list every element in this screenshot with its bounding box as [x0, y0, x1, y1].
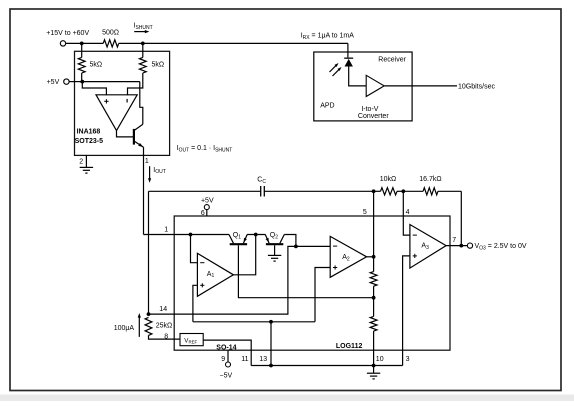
wire A2 out	[367, 256, 374, 258]
arrow IOUT	[149, 166, 151, 179]
bottom gray bar	[0, 395, 574, 402]
wire iout vertical	[143, 147, 145, 234]
node dot A1 minus	[189, 233, 193, 237]
svg-text:5: 5	[363, 209, 367, 216]
op-amp A3 triangle	[410, 225, 446, 269]
capacitor Cc plates	[260, 186, 262, 197]
svg-text:5kΩ: 5kΩ	[90, 62, 103, 69]
wire A1 out	[233, 235, 255, 275]
node dot Q1Q2 emitters	[254, 233, 258, 237]
transistor Q1 base bar	[230, 243, 247, 245]
node dot pin4 top	[401, 189, 405, 193]
node +5V junction dot	[80, 80, 84, 84]
resistor 25k	[145, 317, 152, 335]
resistor 5k-2	[139, 57, 146, 73]
node dot divider mid	[372, 296, 376, 300]
wire pin14 feedback	[149, 246, 296, 314]
transistor Q1 collector	[229, 235, 233, 244]
wire Q2 base stem	[274, 245, 276, 255]
wire opamp out to Q base	[117, 131, 134, 137]
svg-text:1: 1	[145, 158, 149, 165]
wire Cc to 10k dot	[264, 190, 373, 192]
wire vref out	[203, 340, 251, 365]
wire A2 minus	[296, 245, 330, 247]
svg-text:13: 13	[259, 356, 267, 363]
svg-text:+15V to +60V: +15V to +60V	[46, 30, 89, 37]
node dot A2 minus	[294, 245, 298, 249]
resistor 5k-1	[78, 57, 85, 73]
wire A1 plus down	[193, 285, 198, 322]
svg-text:APD: APD	[320, 103, 334, 110]
wire A2out to R1	[373, 257, 375, 272]
svg-text:7: 7	[452, 237, 456, 244]
op-amp U1 plus mark	[104, 100, 108, 102]
wire junction A to 5k1 top	[81, 43, 83, 57]
ground Q2	[268, 254, 281, 256]
resistor 5k-2 top stub	[142, 43, 144, 57]
op-amp A3 plus mark	[413, 255, 417, 257]
terminal +5V	[64, 79, 69, 84]
node dot pin5 top	[372, 189, 376, 193]
svg-text:100μA: 100μA	[114, 325, 135, 332]
op-amp itov triangle	[366, 75, 384, 96]
svg-text:16.7kΩ: 16.7kΩ	[419, 176, 441, 183]
wire pin1 horizontal	[144, 234, 191, 236]
transistor Q2 base bar	[266, 243, 283, 245]
resistor R1 divider	[370, 272, 377, 287]
wire 16.7k down to out	[460, 191, 462, 245]
transistor Q2 collector	[280, 235, 284, 244]
op-amp A2 plus mark	[333, 267, 337, 269]
op-amp A1 plus mark	[200, 284, 204, 286]
svg-text:Receiver: Receiver	[378, 57, 406, 64]
node dot pin13 top	[269, 320, 273, 324]
receiver box	[314, 52, 412, 121]
photodiode D1 cathode bar	[344, 57, 353, 59]
svg-text:SOT23-5: SOT23-5	[75, 138, 104, 145]
wire 10k to dot	[374, 190, 381, 192]
wire pin6 stem	[206, 210, 208, 216]
svg-text:2: 2	[79, 159, 83, 166]
svg-text:14: 14	[159, 306, 167, 313]
ground pin10	[373, 366, 375, 374]
node junction A dot	[80, 42, 84, 46]
svg-text:500Ω: 500Ω	[102, 29, 119, 36]
terminal pin6	[204, 205, 209, 210]
op-amp A3 minus mark	[413, 234, 417, 236]
transistor Q2 emitter	[265, 235, 269, 244]
wire R1 to mid dot	[373, 286, 375, 316]
wire Q1 to Q2	[247, 234, 265, 236]
svg-text:10kΩ: 10kΩ	[380, 176, 397, 183]
transistor Q-ina collector	[134, 124, 142, 130]
ina168 box	[75, 51, 170, 155]
svg-text:4: 4	[406, 209, 410, 216]
wire R2 to pin10	[373, 331, 375, 365]
resistor R-167k	[423, 188, 438, 195]
node dot pin10	[372, 364, 376, 368]
node junction B dot	[141, 42, 145, 46]
transistor Q1 emitter	[243, 235, 247, 244]
light arrow 2	[333, 69, 340, 76]
wire Q2 collector right	[284, 235, 296, 247]
svg-text:I-to-V: I-to-V	[361, 106, 378, 113]
op-amp A1 triangle	[197, 253, 233, 296]
node dot pin14	[147, 312, 151, 316]
vref box	[180, 334, 203, 346]
wire Cc feedback horizontal left	[149, 190, 261, 192]
photodiode D1 triangle	[345, 59, 353, 67]
terminal VO3	[467, 243, 472, 248]
wire 500ohm to junction B	[119, 42, 143, 44]
wire Q1 base down	[238, 245, 373, 297]
wire 16.7k leads	[403, 190, 423, 192]
terminal minus5V	[226, 362, 231, 367]
wire into photodiode	[347, 43, 349, 58]
wire pin13 vertical	[270, 322, 272, 366]
wire pin2 stem	[85, 155, 87, 167]
svg-text:+5V: +5V	[47, 79, 60, 86]
wire ISHUNT segment to receiver	[143, 42, 348, 44]
svg-text:3: 3	[406, 356, 410, 363]
svg-text:9: 9	[221, 356, 225, 363]
svg-text:10: 10	[376, 356, 384, 363]
svg-text:INA168: INA168	[77, 129, 101, 136]
wire pin9 stem	[227, 350, 229, 362]
wire A3 out	[446, 245, 467, 247]
arrow 100uA	[138, 317, 140, 337]
wire bottom rail	[251, 365, 402, 367]
svg-text:SO-14: SO-14	[216, 345, 236, 352]
node dot pin13 bottom	[269, 364, 273, 368]
light arrow 1	[330, 65, 337, 72]
resistor R2 divider	[370, 316, 377, 331]
wire A2 plus	[315, 268, 330, 322]
ground ina168	[80, 166, 93, 168]
svg-text:−5V: −5V	[220, 373, 233, 380]
wire pin3 vertical	[403, 256, 410, 366]
wire +5V junction step to opamp plus	[82, 82, 106, 96]
wire receiver output	[384, 85, 457, 87]
op-amp A2 triangle	[330, 236, 366, 277]
svg-text:1: 1	[164, 227, 168, 234]
svg-text:5kΩ: 5kΩ	[152, 62, 165, 69]
svg-text:6: 6	[201, 210, 205, 217]
transistor Q-ina emitter	[134, 141, 143, 147]
resistor R-500	[103, 40, 119, 47]
node dot A3 out	[459, 244, 463, 248]
wire pin4 vertical	[403, 191, 410, 235]
wire photodiode to itov	[349, 67, 367, 86]
svg-text:25kΩ: 25kΩ	[156, 323, 173, 330]
resistor R-10k	[381, 188, 398, 195]
arrow ISHUNT	[134, 31, 145, 33]
wire +5V terminal to dot	[69, 81, 82, 83]
op-amp U1 minus mark	[126, 99, 128, 103]
wire A1 minus	[191, 235, 198, 263]
wire VCM line	[193, 321, 315, 323]
op-amp U1 triangle	[96, 95, 137, 131]
svg-text:LOG112: LOG112	[336, 343, 363, 350]
wire pin5 vertical	[373, 191, 375, 256]
wire 5k2 to opamp minus	[128, 73, 143, 95]
terminal +15V	[60, 41, 65, 46]
wire feedback vertical	[148, 191, 150, 314]
op-amp A2 minus mark	[333, 245, 337, 247]
op-amp A1 minus mark	[200, 262, 204, 264]
wire 5k1 bottom to +5V dot	[81, 73, 83, 82]
node dot A2 out	[372, 255, 376, 259]
svg-text:10Gbits/sec: 10Gbits/sec	[458, 83, 495, 90]
svg-text:11: 11	[241, 356, 248, 363]
svg-text:+5V: +5V	[201, 197, 214, 204]
wire +5V rail down	[140, 82, 143, 125]
wire supply to junction	[66, 42, 104, 44]
wire pin1 to Q1	[191, 234, 230, 236]
wire +5V rail right	[82, 81, 140, 83]
svg-text:8: 8	[164, 333, 168, 340]
transistor Q-ina base bar	[133, 129, 135, 145]
wire 25k to pin8	[149, 335, 181, 339]
svg-text:Converter: Converter	[358, 113, 389, 120]
log112 box	[174, 216, 450, 350]
